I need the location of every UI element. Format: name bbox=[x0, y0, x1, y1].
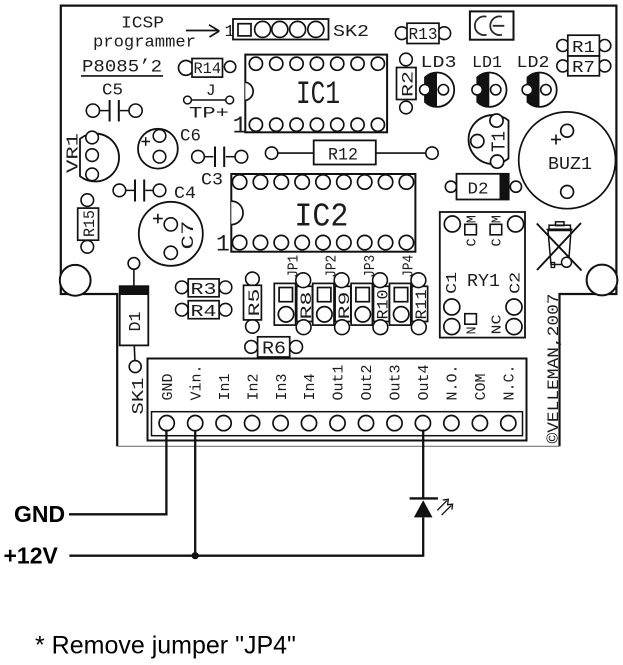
RY1 pad bot-right bbox=[506, 319, 522, 335]
R11 pad bottom bbox=[411, 320, 426, 335]
IC1 pad top 1 bbox=[249, 57, 262, 70]
svg-text:N.O.: N.O. bbox=[445, 364, 462, 400]
T1 pad 2 bbox=[471, 135, 484, 148]
diode D2 bbox=[445, 181, 456, 192]
svg-text:T1: T1 bbox=[489, 131, 511, 152]
svg-text:IC1: IC1 bbox=[296, 76, 340, 113]
SK1 terminal In2 bbox=[245, 416, 260, 431]
SK1 terminal In3 bbox=[273, 416, 288, 431]
svg-text:NC: NC bbox=[491, 315, 506, 335]
IC2 pad top 8 bbox=[378, 175, 392, 189]
SK2 pin1 square pad bbox=[238, 24, 251, 36]
SK1 terminal In4 bbox=[301, 416, 316, 431]
svg-text:N.C.: N.C. bbox=[502, 364, 519, 400]
svg-text:R13: R13 bbox=[409, 25, 438, 44]
VR1 pad 1 bbox=[86, 131, 99, 144]
svg-text:R12: R12 bbox=[328, 146, 358, 166]
JP1 square pad bbox=[279, 288, 292, 302]
svg-text:GND: GND bbox=[14, 501, 65, 527]
resistor R8 body bbox=[297, 286, 313, 321]
R8 pad bottom bbox=[296, 320, 311, 335]
svg-text:LD2: LD2 bbox=[517, 53, 550, 72]
IC2 pad bottom 7 bbox=[358, 235, 372, 249]
WEEE bin flange bbox=[547, 228, 573, 230]
R11 pad top bbox=[411, 273, 426, 288]
T1 pad 3 bbox=[491, 155, 504, 168]
svg-text:R15: R15 bbox=[81, 210, 99, 237]
SK2 pad 5 bbox=[308, 21, 324, 37]
IC2 notch bbox=[231, 201, 243, 225]
IC2 pad bottom 6 bbox=[337, 235, 351, 249]
LED LD3 bbox=[425, 73, 454, 107]
svg-text:C3: C3 bbox=[201, 170, 223, 190]
IC2 pad bottom 8 bbox=[378, 235, 392, 249]
C7 plus sign bbox=[153, 218, 163, 220]
IC1 pad bottom 7 bbox=[371, 118, 384, 131]
IC1 pad top 4 bbox=[310, 57, 323, 70]
svg-text:Out1: Out1 bbox=[331, 364, 348, 400]
IC1 body bbox=[245, 55, 387, 133]
svg-text:R6: R6 bbox=[262, 340, 286, 360]
JP4 round pad bbox=[394, 307, 409, 322]
external LED cathode bar bbox=[410, 497, 438, 499]
svg-text:Out3: Out3 bbox=[388, 364, 405, 400]
IC2 pad top 9 bbox=[399, 175, 413, 189]
svg-text:R2: R2 bbox=[399, 71, 417, 97]
svg-text:C5: C5 bbox=[102, 82, 123, 101]
RY1 NO square pad bbox=[465, 314, 477, 325]
svg-text:R4: R4 bbox=[191, 303, 217, 322]
capacitor C7 body bbox=[139, 202, 203, 266]
WEEE bin lid knob bbox=[556, 222, 565, 226]
LED LD2 bbox=[528, 73, 557, 107]
SK1 terminal N.O. bbox=[444, 416, 459, 431]
svg-text:RY1: RY1 bbox=[467, 272, 500, 292]
resistor R9 body bbox=[335, 286, 351, 321]
CE mark box bbox=[470, 11, 514, 39]
relay RY1 body bbox=[440, 212, 525, 338]
SK1 terminal In1 bbox=[216, 416, 231, 431]
IC2 pad bottom 3 bbox=[274, 235, 288, 249]
SK1 terminal Vin. bbox=[188, 416, 203, 431]
jumper JP4 box bbox=[390, 283, 411, 325]
svg-text:SK2: SK2 bbox=[333, 23, 369, 42]
IC2 pad top 2 bbox=[253, 175, 267, 189]
capacitor C4 bbox=[113, 184, 126, 197]
R10 pad bottom bbox=[373, 320, 388, 335]
resistor R13 bbox=[395, 27, 408, 40]
IC2 pad bottom 4 bbox=[295, 235, 309, 249]
SK2 pad 2 bbox=[255, 21, 271, 37]
resistor R6 bbox=[245, 341, 258, 354]
SK1 terminal Out4 bbox=[415, 416, 430, 431]
svg-text:C6: C6 bbox=[180, 127, 201, 147]
BUZ1 pad - bbox=[561, 186, 574, 199]
R10 pad top bbox=[373, 273, 388, 288]
D1 bottom lead bbox=[133, 345, 136, 361]
resistor R15 bbox=[81, 194, 94, 207]
jumper J bbox=[188, 99, 230, 101]
svg-text:ICSP: ICSP bbox=[121, 14, 164, 33]
WEEE bin foot bbox=[551, 263, 554, 268]
jumper JP1 box bbox=[274, 283, 295, 325]
RY1 pad top-right bbox=[508, 216, 524, 232]
WEEE bin body bbox=[548, 231, 571, 265]
svg-text:P8085’2: P8085’2 bbox=[82, 58, 162, 78]
SK1 terminal GND bbox=[159, 416, 174, 431]
svg-text:D2: D2 bbox=[468, 181, 489, 200]
RY1 COM2 square pad bbox=[490, 224, 502, 235]
svg-text:Vin.: Vin. bbox=[188, 364, 205, 400]
IC2 pad top 1 bbox=[232, 175, 246, 189]
resistor R11 body bbox=[412, 286, 428, 321]
C6 plus sign bbox=[142, 141, 151, 143]
svg-text:BUZ1: BUZ1 bbox=[548, 155, 592, 175]
LED LD1 bbox=[477, 73, 506, 107]
svg-text:R1: R1 bbox=[572, 38, 595, 57]
capacitor C5 bbox=[86, 104, 99, 117]
IC1 pad top 5 bbox=[331, 57, 344, 70]
connector SK1 outer box bbox=[148, 359, 527, 441]
IC1 pad top 7 bbox=[371, 57, 384, 70]
resistor R10 body bbox=[374, 286, 390, 321]
svg-text:VR1: VR1 bbox=[64, 133, 83, 173]
SK1 terminal row box bbox=[152, 412, 523, 436]
diode D1 body bbox=[120, 286, 149, 345]
svg-text:C7: C7 bbox=[179, 221, 199, 250]
resistor R3 bbox=[176, 281, 189, 294]
mounting hole bottom-left bbox=[60, 265, 91, 296]
svg-text:+12V: +12V bbox=[4, 543, 59, 569]
IC1 pad top 6 bbox=[351, 57, 364, 70]
mounting hole bottom-right bbox=[587, 265, 618, 296]
JP2 round pad bbox=[317, 307, 332, 322]
PCB board outline bbox=[61, 6, 617, 447]
resistor R5 bbox=[246, 272, 260, 286]
resistor R1 bbox=[557, 40, 569, 52]
SK1 terminal N.C. bbox=[501, 416, 516, 431]
svg-text:In1: In1 bbox=[217, 373, 234, 400]
IC1 pad bottom 2 bbox=[270, 118, 283, 131]
CE mark glyphs bbox=[475, 16, 504, 35]
WEEE cross bbox=[537, 224, 582, 271]
wire +12V horizontal bbox=[69, 555, 423, 557]
SK1 terminal Out2 bbox=[358, 416, 373, 431]
JP3 square pad bbox=[356, 288, 369, 302]
SK2 pad 4 bbox=[290, 21, 306, 37]
wire LED to +12V bbox=[422, 517, 424, 556]
svg-text:C1: C1 bbox=[444, 272, 461, 294]
IC2 pad top 3 bbox=[274, 175, 288, 189]
IC1 notch bbox=[245, 82, 253, 100]
IC1 pad bottom 5 bbox=[331, 118, 344, 131]
C7 pad 1 bbox=[164, 218, 177, 231]
SK2 pad 3 bbox=[272, 21, 288, 37]
IC1 pad bottom 3 bbox=[290, 118, 303, 131]
svg-text:GND: GND bbox=[160, 373, 177, 400]
junction +12V/Vin bbox=[192, 552, 199, 559]
IC2 pad top 7 bbox=[358, 175, 372, 189]
PCB bottom edge bbox=[117, 445, 559, 447]
D1 bottom pad bbox=[129, 361, 141, 373]
D1 cathode band bbox=[120, 286, 149, 295]
svg-text:R5: R5 bbox=[246, 289, 264, 317]
JP4 square pad bbox=[394, 288, 407, 302]
wire Out4 to LED bbox=[422, 430, 424, 498]
VR1 pad 2 bbox=[86, 149, 99, 162]
external LED light arrows bbox=[437, 499, 448, 510]
capacitor C3 bbox=[192, 150, 205, 163]
WEEE bin wheel bbox=[562, 257, 572, 267]
IC1 pad top 3 bbox=[290, 57, 303, 70]
WEEE bin lid bbox=[549, 225, 571, 229]
capacitor C6 body bbox=[138, 129, 178, 169]
resistor R12 bbox=[265, 147, 277, 159]
R9 pad top bbox=[334, 273, 349, 288]
D1 top lead bbox=[133, 269, 135, 287]
svg-text:R14: R14 bbox=[194, 60, 222, 78]
svg-text:M: M bbox=[465, 215, 480, 223]
svg-text:C: C bbox=[491, 238, 506, 246]
RY1 pad mid-right bbox=[506, 299, 522, 315]
IC2 pad bottom 9 bbox=[399, 235, 413, 249]
IC2 pad top 4 bbox=[295, 175, 309, 189]
svg-text:programmer: programmer bbox=[93, 33, 196, 52]
svg-text:Out2: Out2 bbox=[359, 364, 376, 400]
svg-text:C2: C2 bbox=[507, 272, 524, 294]
BUZ1 plus sign bbox=[551, 139, 561, 141]
svg-text:In4: In4 bbox=[302, 373, 319, 400]
JP3 round pad bbox=[355, 307, 370, 322]
C6 pad 2 bbox=[153, 150, 166, 163]
svg-text:In3: In3 bbox=[274, 373, 291, 400]
C7 pad 2 bbox=[164, 246, 177, 259]
svg-text:In2: In2 bbox=[245, 373, 262, 400]
svg-text:LD3: LD3 bbox=[421, 53, 457, 72]
SK1 terminal Out3 bbox=[387, 416, 402, 431]
IC2 pad bottom 1 bbox=[232, 235, 246, 249]
resistor R14 bbox=[179, 61, 194, 76]
buzzer BUZ1 body bbox=[519, 112, 616, 209]
VR1 pad 3 bbox=[86, 168, 99, 181]
IC2 pad bottom 2 bbox=[253, 235, 267, 249]
RY1 pad mid-left bbox=[444, 299, 460, 315]
IC1 pad bottom 6 bbox=[351, 118, 364, 131]
external LED triangle bbox=[414, 500, 433, 517]
wire GND bbox=[69, 430, 166, 515]
svg-text:©VELLEMAN,2007: ©VELLEMAN,2007 bbox=[545, 294, 563, 444]
C6 pad 1 bbox=[153, 130, 166, 143]
svg-text:D1: D1 bbox=[126, 311, 145, 331]
RY1 pad bot-left bbox=[444, 319, 460, 335]
trimmer VR1 body bbox=[80, 134, 119, 182]
R9 pad bottom bbox=[335, 320, 350, 335]
svg-text:1: 1 bbox=[216, 232, 230, 258]
svg-text:SK1: SK1 bbox=[129, 377, 148, 414]
svg-text:LD1: LD1 bbox=[472, 53, 502, 72]
svg-text:TP+: TP+ bbox=[189, 105, 229, 123]
svg-text:R3: R3 bbox=[191, 281, 217, 300]
svg-text:N: N bbox=[465, 326, 480, 334]
resistor R4 bbox=[176, 303, 189, 316]
svg-text:Out4: Out4 bbox=[416, 364, 433, 400]
diode D1 top pad bbox=[128, 258, 140, 270]
transistor T1 body bbox=[469, 115, 509, 164]
svg-text:J: J bbox=[206, 82, 216, 100]
BUZ1 pad + bbox=[561, 124, 574, 137]
T1 pad 1 bbox=[490, 114, 503, 127]
JP2 square pad bbox=[318, 288, 331, 302]
svg-text:R7: R7 bbox=[572, 58, 595, 77]
arrow to SK2 bbox=[186, 25, 219, 37]
SK1 terminal Out1 bbox=[330, 416, 345, 431]
R8 pad top bbox=[296, 273, 311, 288]
svg-text:IC2: IC2 bbox=[294, 198, 348, 235]
svg-text:R11: R11 bbox=[413, 290, 431, 320]
svg-text:C: C bbox=[465, 238, 480, 246]
SK1 terminal COM bbox=[472, 416, 487, 431]
svg-text:COM: COM bbox=[473, 373, 490, 400]
jumper JP2 box bbox=[313, 283, 334, 325]
svg-text:C4: C4 bbox=[174, 184, 196, 204]
IC1 pad bottom 1 bbox=[249, 118, 262, 131]
jumper JP3 box bbox=[351, 283, 372, 325]
resistor R2 bbox=[400, 53, 413, 66]
resistor R7 bbox=[557, 60, 569, 72]
IC2 pad top 5 bbox=[316, 175, 330, 189]
svg-text:* Remove jumper "JP4": * Remove jumper "JP4" bbox=[35, 632, 296, 660]
svg-text:M: M bbox=[491, 215, 506, 223]
IC1 pad bottom 4 bbox=[310, 118, 323, 131]
wire Vin drop bbox=[194, 431, 196, 556]
JP1 round pad bbox=[278, 307, 293, 322]
RY1 COM1 square pad bbox=[465, 224, 477, 235]
connector SK2 box bbox=[233, 19, 329, 40]
IC2 body bbox=[231, 174, 415, 252]
IC1 pad top 2 bbox=[270, 57, 283, 70]
RY1 pad top-left bbox=[444, 216, 460, 232]
IC2 pad top 6 bbox=[337, 175, 351, 189]
IC2 pad bottom 5 bbox=[316, 235, 330, 249]
